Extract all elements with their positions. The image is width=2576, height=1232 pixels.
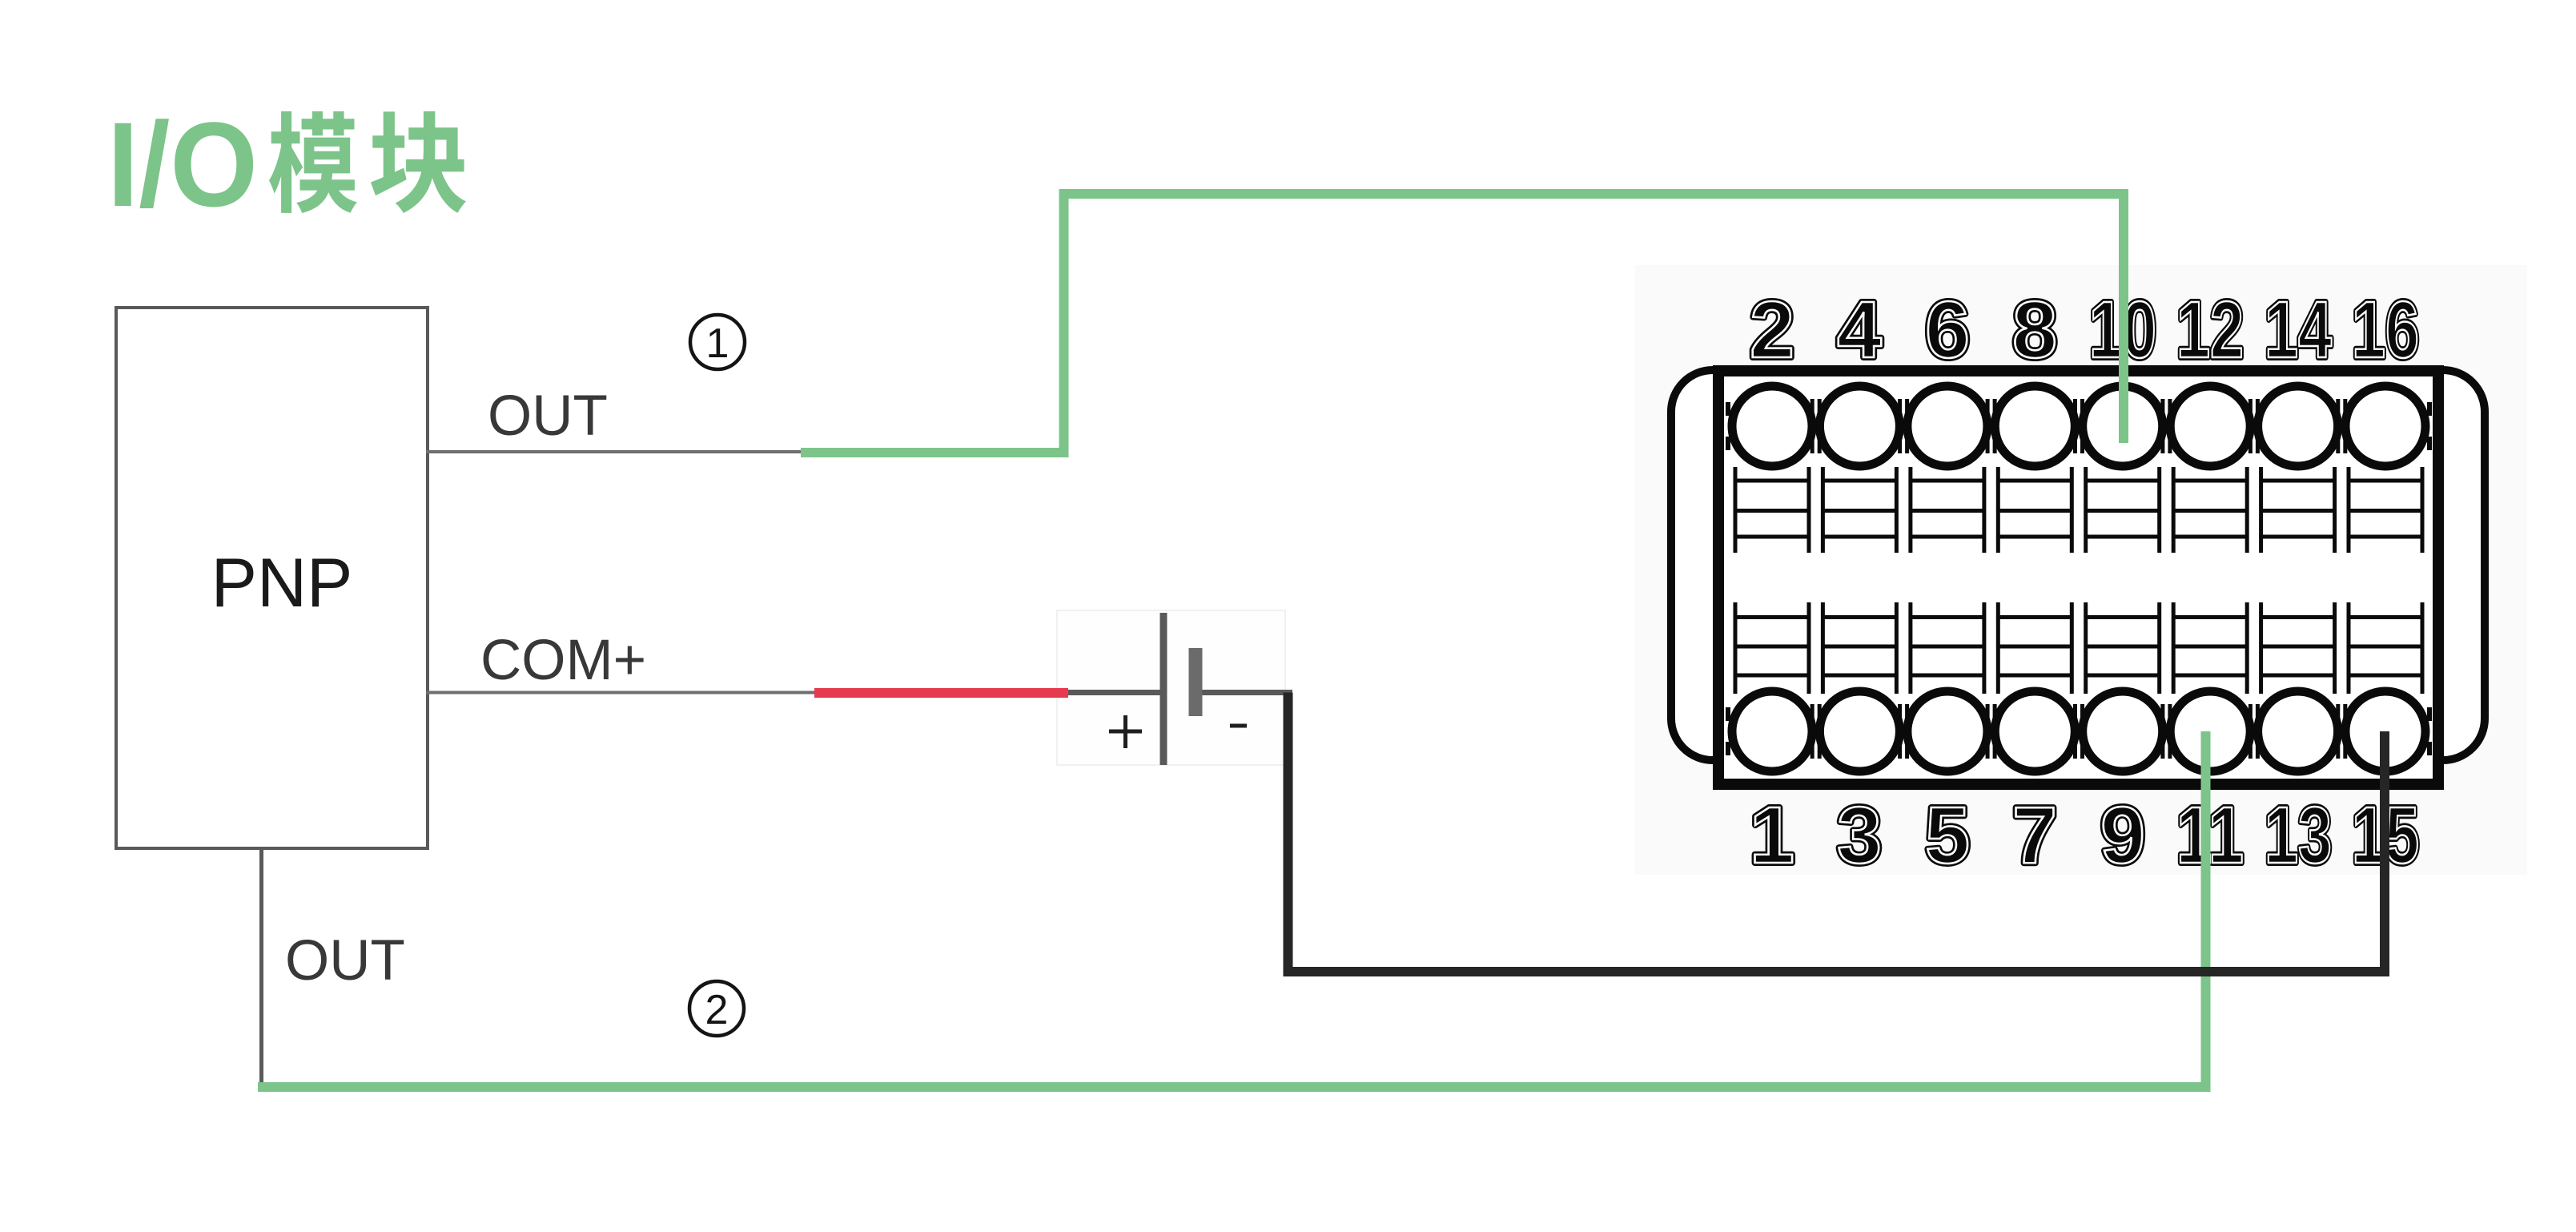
- svg-text:7: 7: [2012, 791, 2057, 880]
- svg-text:COM+: COM+: [480, 629, 646, 692]
- svg-text:14: 14: [2265, 285, 2332, 375]
- svg-text:8: 8: [2012, 285, 2057, 375]
- svg-text:2: 2: [705, 987, 729, 1033]
- svg-text:5: 5: [1925, 791, 1970, 880]
- svg-text:OUT: OUT: [488, 384, 608, 448]
- svg-text:16: 16: [2352, 285, 2419, 375]
- svg-text:OUT: OUT: [285, 929, 405, 992]
- svg-text:12: 12: [2176, 285, 2244, 375]
- svg-text:I/O: I/O: [107, 97, 258, 232]
- svg-text:13: 13: [2265, 791, 2332, 880]
- svg-text:1: 1: [706, 320, 729, 367]
- svg-text:3: 3: [1837, 791, 1882, 880]
- svg-text:PNP: PNP: [211, 545, 353, 622]
- svg-text:1: 1: [1750, 791, 1794, 880]
- svg-text:4: 4: [1837, 285, 1882, 375]
- svg-text:6: 6: [1925, 285, 1970, 375]
- svg-text:9: 9: [2100, 791, 2145, 880]
- svg-text:2: 2: [1750, 285, 1794, 375]
